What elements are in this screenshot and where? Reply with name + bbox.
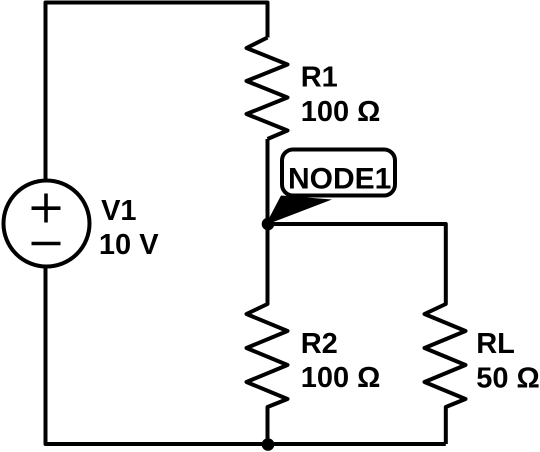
svg-text:V1: V1 xyxy=(101,195,136,227)
svg-text:R2: R2 xyxy=(301,328,338,360)
svg-text:R1: R1 xyxy=(301,62,338,94)
svg-text:10 V: 10 V xyxy=(99,229,159,261)
svg-text:100 Ω: 100 Ω xyxy=(301,96,381,128)
svg-text:100 Ω: 100 Ω xyxy=(301,362,381,394)
svg-text:RL: RL xyxy=(476,328,515,360)
svg-text:50 Ω: 50 Ω xyxy=(476,363,540,395)
svg-text:NODE1: NODE1 xyxy=(288,162,391,195)
